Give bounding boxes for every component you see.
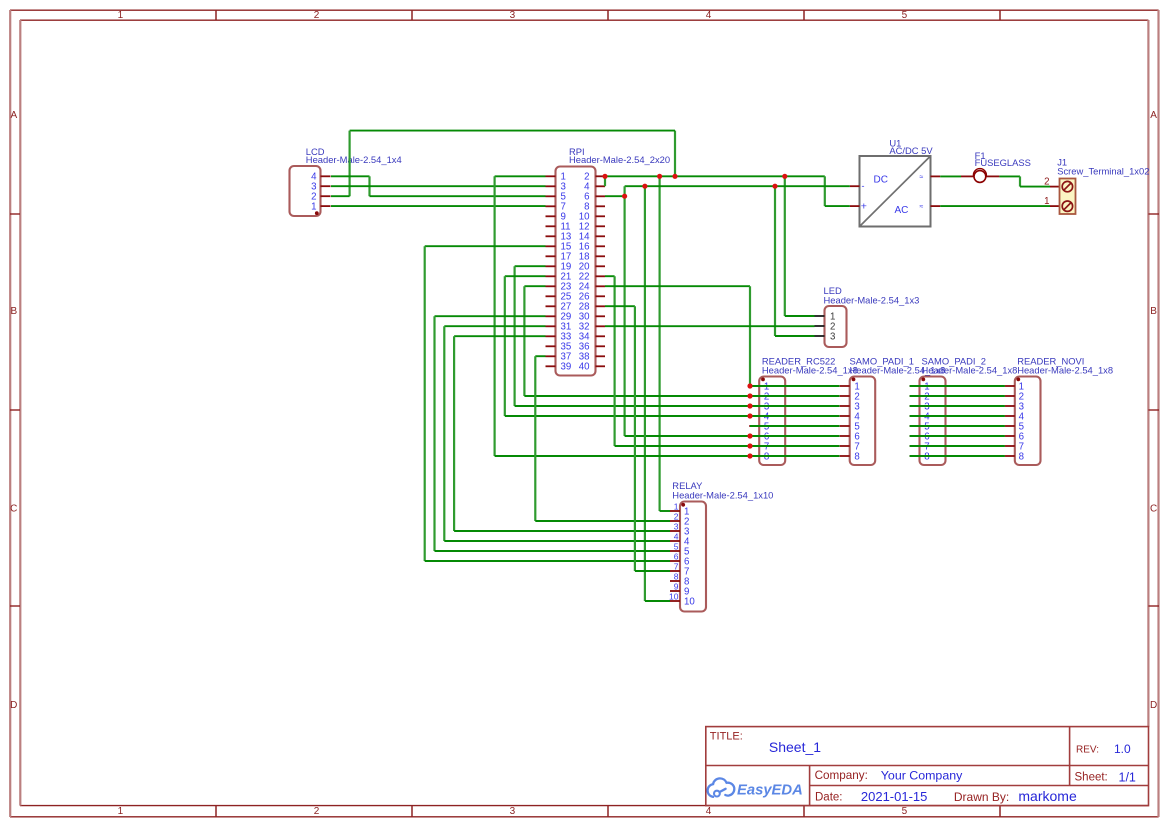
title block: [706, 727, 1149, 806]
svg-text:Header-Male-2.54_1x8: Header-Male-2.54_1x8: [922, 364, 1018, 375]
svg-text:REV:: REV:: [1076, 744, 1099, 755]
wire net 5V: RPI pin2 row horizontal to U1: [605, 175, 825, 177]
junction at 750,406: [747, 403, 752, 408]
wire RPI pin21 to READER row4: [505, 275, 546, 277]
svg-text:B: B: [1150, 306, 1157, 317]
connector RELAY (Header-Male-2.54_1x10): [669, 480, 773, 612]
connector READER_NOVI (Header-Male-2.54_1x8): [1005, 355, 1113, 465]
svg-text:D: D: [10, 700, 17, 711]
svg-text:Header-Male-2.54_2x20: Header-Male-2.54_2x20: [569, 154, 670, 165]
svg-text:D: D: [1150, 700, 1157, 711]
svg-text:5: 5: [674, 541, 679, 551]
svg-text:3: 3: [830, 331, 835, 342]
wire LCD pin4 to RPI pin5: [331, 175, 370, 177]
svg-text:9: 9: [674, 581, 679, 591]
svg-text:Header-Male-2.54_1x8: Header-Male-2.54_1x8: [1017, 364, 1113, 375]
svg-text:≈: ≈: [920, 204, 924, 211]
junction at 644.9,186.2: [642, 184, 647, 189]
svg-text:AC/DC 5V: AC/DC 5V: [889, 145, 933, 156]
wire net 5V: down to LCD pin2: [349, 131, 351, 197]
wire fuse F1 to J1 pin2: [999, 175, 1020, 177]
svg-text:Header-Male-2.54_1x10: Header-Male-2.54_1x10: [672, 489, 773, 500]
connector SAMO_PADI_2 (Header-Male-2.54_1x8): [910, 355, 1018, 465]
wire RPI pin31 to RELAY pin4: [444, 325, 545, 327]
svg-text:Header-Male-2.54_1x8: Header-Male-2.54_1x8: [762, 364, 858, 375]
connector SAMO_PADI_1 (Header-Male-2.54_1x8): [840, 355, 946, 465]
svg-text:A: A: [10, 110, 17, 121]
wire RPI pin1 to READER row8: [495, 175, 546, 177]
wire net GND: vertical to READER row6: [623, 186, 625, 436]
svg-text:5: 5: [902, 806, 908, 817]
wire SAMO_PADI_2 rows to READER_NOVI rows 1-8: [910, 385, 1005, 387]
svg-text:Sheet:: Sheet:: [1075, 772, 1108, 784]
connector LED (Header-Male-2.54_1x3): [815, 285, 920, 347]
svg-text:TITLE:: TITLE:: [710, 731, 743, 743]
wire net GND: vertical to RELAY pin10: [644, 186, 646, 601]
wire net 5V: vertical up to top bus: [674, 131, 676, 177]
svg-text:2021-01-15: 2021-01-15: [861, 789, 928, 804]
wire RPI pin29 to RELAY pin5: [435, 315, 546, 317]
svg-text:10: 10: [684, 596, 695, 607]
svg-text:AC: AC: [895, 205, 909, 216]
svg-text:3: 3: [510, 806, 516, 817]
junction at 605,176.3: [602, 174, 607, 179]
svg-text:-: -: [862, 181, 865, 191]
junction at 750,416: [747, 413, 752, 418]
svg-text:1: 1: [118, 806, 124, 817]
svg-text:markome: markome: [1018, 788, 1077, 804]
svg-text:B: B: [10, 306, 17, 317]
junction at 624.6,196.2: [622, 194, 627, 199]
junction at 784.8,176.3: [782, 174, 787, 179]
wire READER_RC522 rows to SAMO_PADI_1 rows 1-8: [750, 385, 840, 387]
svg-text:Header-Male-2.54_1x3: Header-Male-2.54_1x3: [824, 295, 920, 306]
svg-text:5: 5: [902, 10, 908, 21]
junction at 750,396: [747, 393, 752, 398]
svg-text:2: 2: [674, 511, 679, 521]
screw terminal J1 (Screw_Terminal_1x02): [1044, 157, 1149, 214]
EasyEDA logo: [708, 778, 803, 798]
wire RPI pin19 to READER row3: [515, 265, 546, 267]
svg-text:+: +: [861, 201, 867, 213]
junction at 750,446: [747, 443, 752, 448]
svg-text:Your Company: Your Company: [881, 768, 963, 782]
svg-text:4: 4: [674, 531, 679, 541]
svg-text:10: 10: [669, 591, 679, 601]
wire RPI pin28 to RELAY pin7: [605, 305, 635, 307]
svg-text:Screw_Terminal_1x02: Screw_Terminal_1x02: [1057, 165, 1149, 176]
svg-text:2: 2: [314, 806, 320, 817]
wire net GND: vertical to LED pin3: [774, 186, 776, 336]
svg-text:C: C: [1150, 504, 1157, 515]
wire U1 AC out to fuse F1: [940, 175, 961, 177]
svg-text:1: 1: [118, 10, 124, 21]
wire net 5V: vertical to RELAY pin1: [658, 176, 660, 511]
svg-text:≈: ≈: [920, 174, 924, 181]
svg-text:8: 8: [674, 571, 679, 581]
svg-text:3: 3: [510, 10, 516, 21]
svg-text:FUSEGLASS: FUSEGLASS: [975, 157, 1031, 168]
junction at 659.6,176.3: [657, 174, 662, 179]
svg-text:8: 8: [854, 451, 859, 462]
connector RPI (Header-Male-2.54_2x20): [546, 146, 671, 376]
svg-text:1/1: 1/1: [1119, 770, 1136, 784]
wire RPI pin33 to RELAY pin3: [454, 335, 545, 337]
wire RPI pin37 to RELAY pin2: [535, 355, 545, 357]
svg-text:2: 2: [314, 10, 320, 21]
wire net GND: horizontal to U1 minus: [625, 185, 850, 187]
svg-text:A: A: [1150, 110, 1157, 121]
svg-text:EasyEDA: EasyEDA: [737, 783, 803, 799]
wire net GND: RPI pin6 stub wire: [605, 195, 625, 197]
wire net 5V: strap RPI pin2 to pin4: [604, 175, 606, 186]
svg-text:4: 4: [706, 10, 712, 21]
svg-text:3: 3: [674, 521, 679, 531]
junction at 750,436: [747, 433, 752, 438]
wire net 5V: vertical to LED pin1: [784, 176, 786, 316]
svg-text:DC: DC: [874, 175, 888, 186]
svg-text:6: 6: [674, 551, 679, 561]
junction at 675,176.3: [672, 174, 677, 179]
svg-text:1.0: 1.0: [1114, 742, 1131, 756]
svg-text:Header-Male-2.54_1x4: Header-Male-2.54_1x4: [306, 154, 402, 165]
wire RPI pin23 to READER row2: [524, 285, 545, 287]
wire RPI pin15 to RELAY pin6: [425, 245, 546, 247]
svg-text:Sheet_1: Sheet_1: [769, 739, 821, 755]
wire RPI pin32 to LED pin2: [605, 325, 815, 327]
junction at 750,456: [747, 453, 752, 458]
wire RPI pin24 to READER row1: [605, 285, 750, 287]
svg-text:1: 1: [311, 202, 316, 213]
wire U1 AC out to J1 pin1: [940, 205, 1050, 207]
junction at 775,186.2: [772, 184, 777, 189]
svg-text:40: 40: [579, 362, 590, 373]
svg-text:7: 7: [674, 561, 679, 571]
svg-text:C: C: [10, 504, 17, 515]
wire LCD pin1 to RPI pin7: [331, 205, 546, 207]
svg-text:Drawn By:: Drawn By:: [954, 790, 1009, 804]
svg-text:39: 39: [561, 362, 572, 373]
power module U1 (AC/DC 5V): [850, 137, 940, 226]
svg-text:8: 8: [1019, 451, 1024, 462]
connector READER_RC522 (Header-Male-2.54_1x8): [749, 355, 858, 465]
svg-text:1: 1: [674, 501, 679, 511]
svg-text:4: 4: [706, 806, 712, 817]
wire net 5V: corner down to U1 plus: [824, 176, 826, 206]
svg-text:Company:: Company:: [815, 769, 868, 782]
wire net 5V: top bus horizontal: [350, 130, 675, 132]
wire LCD pin3 to RPI pin3: [331, 185, 546, 187]
fuse F1 (FUSEGLASS): [961, 150, 1031, 183]
junction at 750,386: [747, 383, 752, 388]
svg-text:Date:: Date:: [815, 792, 843, 804]
connector LCD (Header-Male-2.54_1x4): [290, 146, 402, 216]
wire RPI pin22 to READER row7: [605, 275, 615, 277]
